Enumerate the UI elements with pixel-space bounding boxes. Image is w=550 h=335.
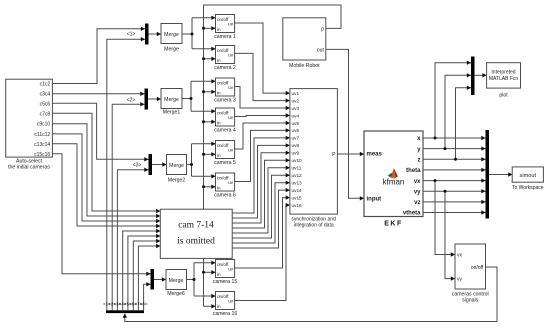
svg-text:signals: signals <box>462 298 479 304</box>
svg-text:Merge6: Merge6 <box>167 291 185 297</box>
mux Mux2 <box>145 89 149 110</box>
wire c15c16 to Mux4 top <box>52 154 150 276</box>
svg-text:uv: uv <box>228 115 234 120</box>
wire c13c14 to cam box <box>52 144 160 228</box>
svg-text:Interpreted: Interpreted <box>491 70 515 76</box>
svg-text:camera 1: camera 1 <box>214 34 236 40</box>
svg-text:camera 5: camera 5 <box>214 160 236 166</box>
svg-text:uv15: uv15 <box>292 195 303 200</box>
block cameras control signals <box>455 244 486 289</box>
wire c5c6 to Mux3 top <box>52 103 148 161</box>
svg-text:Merge: Merge <box>164 47 179 53</box>
block Merge <box>161 24 182 44</box>
svg-text:uv12: uv12 <box>292 173 303 178</box>
svg-text:kfman: kfman <box>383 178 405 187</box>
wire EKF x branch to plot mux <box>434 61 472 140</box>
block Mobile Robot <box>283 18 326 60</box>
wire Mux5 to simout <box>489 172 512 176</box>
svg-text:vy: vy <box>414 189 421 195</box>
wire plot mux to Interpreted MATLAB Fcn <box>475 73 487 77</box>
svg-text:uv: uv <box>228 267 234 272</box>
svg-text:uv: uv <box>228 180 234 185</box>
svg-text:vx: vx <box>457 253 463 259</box>
wire EKF out 2 to Mux5 <box>423 146 486 150</box>
svg-text:c5c6: c5c6 <box>40 102 51 108</box>
wire EKF out 3 to Mux5 <box>423 157 486 161</box>
svg-text:input: input <box>367 196 382 202</box>
svg-text:camera 4: camera 4 <box>214 128 236 134</box>
wire EKF vx branch to cameras control <box>434 179 456 257</box>
svg-text:<1>: <1> <box>127 31 136 37</box>
svg-text:in: in <box>217 121 221 126</box>
svg-text:Mobile Robot: Mobile Robot <box>289 63 320 69</box>
block Auto-select the initial cameras <box>6 79 53 157</box>
wire EKF out 8 to Mux5 <box>423 210 486 214</box>
svg-text:uv9: uv9 <box>292 151 300 156</box>
block synchronization and integration of data <box>290 89 338 215</box>
svg-text:<2>: <2> <box>127 98 136 104</box>
svg-text:vx: vx <box>414 179 421 185</box>
wire camera1 uv to uv1 <box>235 23 290 95</box>
svg-text:uv: uv <box>228 148 234 153</box>
svg-text:z: z <box>418 158 421 164</box>
svg-text:in: in <box>217 153 221 158</box>
wire c3c4 to Mux2 top <box>52 92 144 96</box>
wire camera3 uv to uv3 <box>235 87 290 111</box>
wire EKF out 1 to Mux5 <box>423 136 486 140</box>
wire EKF vy branch to cameras control <box>444 190 456 281</box>
wire c7c8 to cam box <box>52 113 160 213</box>
svg-text:p: p <box>321 27 324 33</box>
svg-text:in: in <box>217 304 221 309</box>
wire Merge2 to camera5/6 on/off <box>187 142 216 179</box>
svg-text:c11c12: c11c12 <box>34 132 50 138</box>
wire control 4 to cam box <box>123 229 161 310</box>
wire Mux2 to Merge1 <box>148 97 161 101</box>
block cam 7-14 is omitted <box>160 209 232 258</box>
wire EKF out 6 to Mux5 <box>423 189 486 193</box>
svg-text:meas: meas <box>367 152 383 158</box>
wire Merge to camera1/2 on/off <box>182 16 216 51</box>
svg-text:camera 15: camera 15 <box>213 279 238 285</box>
wire on/off feedback to Demux <box>123 267 497 322</box>
wire Mux4 to Merge6 <box>154 277 166 281</box>
svg-text:To Workspace: To Workspace <box>512 185 544 191</box>
block camera 3 <box>216 78 235 96</box>
wire EKF out 7 to Mux5 <box>423 200 486 204</box>
block camera 5 <box>216 141 235 159</box>
wire c9c10 to cam box <box>52 124 160 219</box>
wire control 1 to Mux1 bottom <box>107 37 145 310</box>
svg-text:uv11: uv11 <box>292 166 302 171</box>
svg-text:Merge: Merge <box>164 32 179 38</box>
wire c11c12 to cam box <box>52 134 160 223</box>
svg-text:simout: simout <box>520 173 537 179</box>
svg-text:uv7: uv7 <box>292 136 300 141</box>
wire cam box out 4 to uv10 <box>232 158 290 228</box>
svg-text:c9c10: c9c10 <box>37 122 51 128</box>
svg-text:cam 7-14: cam 7-14 <box>178 221 214 231</box>
mux Mux3 <box>149 154 153 175</box>
svg-text:uv5: uv5 <box>292 121 300 126</box>
block EKF <box>364 131 423 217</box>
svg-text:uv13: uv13 <box>292 181 303 186</box>
wire cam box out 8 to uv14 <box>232 188 290 248</box>
svg-text:uv2: uv2 <box>292 98 300 103</box>
svg-text:Merge: Merge <box>169 163 184 169</box>
wire sync P to EKF meas <box>337 152 364 156</box>
svg-text:Merge: Merge <box>164 97 179 103</box>
svg-text:EKF: EKF <box>384 221 403 228</box>
block Interpreted MATLAB Fcn <box>487 63 521 88</box>
wire c1c2 to Mux1 top <box>52 27 145 84</box>
svg-text:in: in <box>217 91 221 96</box>
mux Mux1 <box>145 24 149 45</box>
label demux signal tags <box>103 301 148 306</box>
block camera 1 <box>216 15 235 33</box>
svg-text:the initial cameras: the initial cameras <box>8 164 50 170</box>
svg-text:camera 16: camera 16 <box>213 311 238 317</box>
svg-text:Merge1: Merge1 <box>163 110 181 116</box>
svg-text:camera 6: camera 6 <box>214 193 236 199</box>
wire camera5 uv to uv5 <box>235 121 290 149</box>
wire cam box out 3 to uv9 <box>232 151 290 223</box>
block camera 15 <box>216 260 235 278</box>
wire Mobile Robot out to EKF input <box>326 49 364 200</box>
svg-text:vy: vy <box>457 277 463 283</box>
wire camera4 uv to uv4 <box>235 113 290 117</box>
wire camera6 uv to uv6 <box>235 128 290 181</box>
wire cam box out 1 to uv7 <box>232 136 290 213</box>
mux plot mux <box>471 57 475 96</box>
svg-text:is omitted: is omitted <box>177 237 215 247</box>
wire cam box out 2 to uv8 <box>232 143 290 218</box>
wire control 8 to Mux4 bottom <box>144 282 151 310</box>
wire EKF out 4 to Mux5 <box>423 168 486 172</box>
wire EKF y branch to plot mux <box>444 73 472 150</box>
wire Merge1 to camera3/4 on/off <box>182 79 216 113</box>
svg-text:uv: uv <box>228 53 234 58</box>
svg-text:uv10: uv10 <box>292 158 303 163</box>
wire control 5 to cam box <box>128 234 160 310</box>
svg-text:uv: uv <box>228 22 234 27</box>
svg-text:uv6: uv6 <box>292 128 300 133</box>
block camera 16 <box>216 292 235 310</box>
svg-text:vtheta: vtheta <box>403 211 421 217</box>
svg-text:c15c16: c15c16 <box>34 152 50 158</box>
svg-text:Merge2: Merge2 <box>168 178 186 184</box>
wire camera15 uv to uv15 <box>235 195 290 268</box>
svg-text:MATLAB Fcn: MATLAB Fcn <box>489 76 519 82</box>
svg-text:c1c2: c1c2 <box>40 82 51 88</box>
wire cam box out 5 to uv11 <box>232 166 290 233</box>
svg-text:Merge: Merge <box>169 278 184 284</box>
wire Mux1 to Merge <box>149 32 162 36</box>
block Merge1 <box>161 89 182 109</box>
svg-text:uv3: uv3 <box>292 106 300 111</box>
block camera 4 <box>216 108 235 126</box>
svg-text:uv4: uv4 <box>292 113 300 118</box>
demux control signals <box>106 310 144 313</box>
svg-text:uv14: uv14 <box>292 188 303 193</box>
svg-text:on/off: on/off <box>471 265 484 271</box>
wire camera16 uv to uv16 <box>235 203 290 301</box>
svg-text:uv: uv <box>228 299 234 304</box>
svg-text:plot: plot <box>499 93 508 99</box>
mux Mux4 <box>151 269 155 290</box>
wire Mux3 to Merge2 <box>152 162 167 166</box>
svg-text:uv8: uv8 <box>292 143 300 148</box>
mux Mux5 <box>486 130 490 219</box>
svg-text:uv1: uv1 <box>292 91 300 96</box>
wire cam box out 7 to uv13 <box>232 181 290 244</box>
svg-text:uv: uv <box>228 85 234 90</box>
svg-text:out: out <box>317 48 325 54</box>
wire EKF z branch to plot mux <box>454 86 471 161</box>
svg-text:integration of data: integration of data <box>294 223 334 229</box>
svg-text:c13c14: c13c14 <box>34 142 50 148</box>
block camera 2 <box>216 46 235 64</box>
wire Mobile Robot p loop to camera in ports <box>202 5 341 309</box>
wire cam box out 6 to uv12 <box>232 173 290 238</box>
wire control 2 to Mux2 bottom <box>112 102 144 310</box>
svg-text:in: in <box>217 27 221 32</box>
block Merge6 <box>166 270 187 290</box>
block simout To Workspace <box>512 167 543 182</box>
block Merge2 <box>167 155 187 175</box>
svg-text:vz: vz <box>414 200 420 206</box>
wire control 3 to Mux3 bottom <box>117 168 148 311</box>
svg-text:camera 2: camera 2 <box>214 65 236 71</box>
wire Merge6 to camera15/16 on/off <box>187 261 216 299</box>
svg-text:c7c8: c7c8 <box>40 112 51 118</box>
svg-text:c3c4: c3c4 <box>40 92 51 98</box>
wire control 7 to cam box <box>138 244 160 310</box>
svg-text:in: in <box>217 186 221 191</box>
svg-text:camera 3: camera 3 <box>214 98 236 104</box>
wire EKF out 5 to Mux5 <box>423 178 486 182</box>
wire control 6 to cam box <box>133 239 160 310</box>
wire camera2 uv to uv2 <box>235 53 290 102</box>
svg-text:theta: theta <box>406 168 421 174</box>
svg-text:in: in <box>217 58 221 63</box>
svg-text:<8>: <8> <box>140 301 148 306</box>
svg-text:in: in <box>217 272 221 277</box>
svg-text:uv16: uv16 <box>292 203 303 208</box>
svg-text:<3>: <3> <box>133 163 142 169</box>
block camera 6 <box>216 173 235 191</box>
icon MATLAB logo <box>388 168 398 178</box>
